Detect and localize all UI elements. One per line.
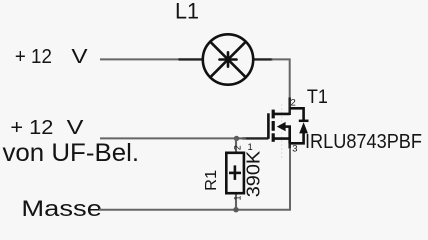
- bulk arrow head (points left): [277, 122, 286, 131]
- svg-text:L1: L1: [175, 0, 199, 23]
- lamp L1 pin 1 (left): [179, 58, 204, 60]
- channel segment bottom: [272, 133, 275, 142]
- mosfet T1 drain pin: [288, 98, 291, 116]
- svg-text:390K: 390K: [243, 150, 264, 197]
- svg-text:IRLU8743PBF: IRLU8743PBF: [305, 131, 422, 153]
- wire junction to gate pin: [237, 137, 247, 139]
- svg-text:3: 3: [292, 144, 297, 155]
- wire net +12V to lamp: [100, 58, 180, 60]
- resistor R1 body: [226, 153, 244, 193]
- svg-text:von UF-Bel.: von UF-Bel.: [3, 139, 140, 167]
- body diode cathode bar: [299, 120, 309, 123]
- svg-text:+ 12: + 12: [15, 45, 52, 68]
- source lead: [272, 137, 290, 140]
- svg-text:T1: T1: [307, 87, 328, 108]
- bulk to source vertical: [288, 127, 291, 144]
- svg-text:2: 2: [291, 98, 296, 109]
- gate bar: [267, 113, 270, 139]
- resistor R1 pin 1 stub (bottom): [235, 193, 237, 210]
- origin cross T1 (faint dashed): [281, 104, 283, 158]
- drain lead: [272, 113, 290, 116]
- svg-text:1: 1: [233, 195, 243, 200]
- svg-text:V: V: [67, 116, 84, 139]
- svg-text:V: V: [71, 45, 88, 68]
- mosfet T1 gate pin: [243, 137, 269, 139]
- lamp L1 pin 2 (right): [254, 58, 273, 60]
- bulk arrow line: [285, 125, 291, 128]
- wire net Masse rail: [99, 148, 290, 210]
- body diode bottom lead: [290, 133, 304, 144]
- svg-text:2: 2: [233, 145, 243, 150]
- junction dot at gate/R1: [234, 136, 239, 141]
- resistor R1 pin 2 stub (top): [235, 138, 237, 154]
- lamp L1 body: [203, 34, 253, 84]
- channel segment middle: [272, 121, 275, 131]
- wire lamp to drain corner: [272, 59, 290, 99]
- body diode top lead: [290, 108, 304, 120]
- mosfet T1 body: [268, 108, 303, 143]
- body diode anode triangle (points up): [299, 122, 308, 133]
- svg-text:Masse: Masse: [21, 196, 102, 221]
- junction dot at R1 bottom: [233, 207, 238, 212]
- mosfet T1 source pin: [288, 139, 291, 149]
- svg-text:+ 12: + 12: [10, 116, 53, 139]
- channel segment top: [272, 110, 275, 119]
- svg-text:R1: R1: [203, 170, 220, 191]
- wire net gate row: [100, 137, 237, 139]
